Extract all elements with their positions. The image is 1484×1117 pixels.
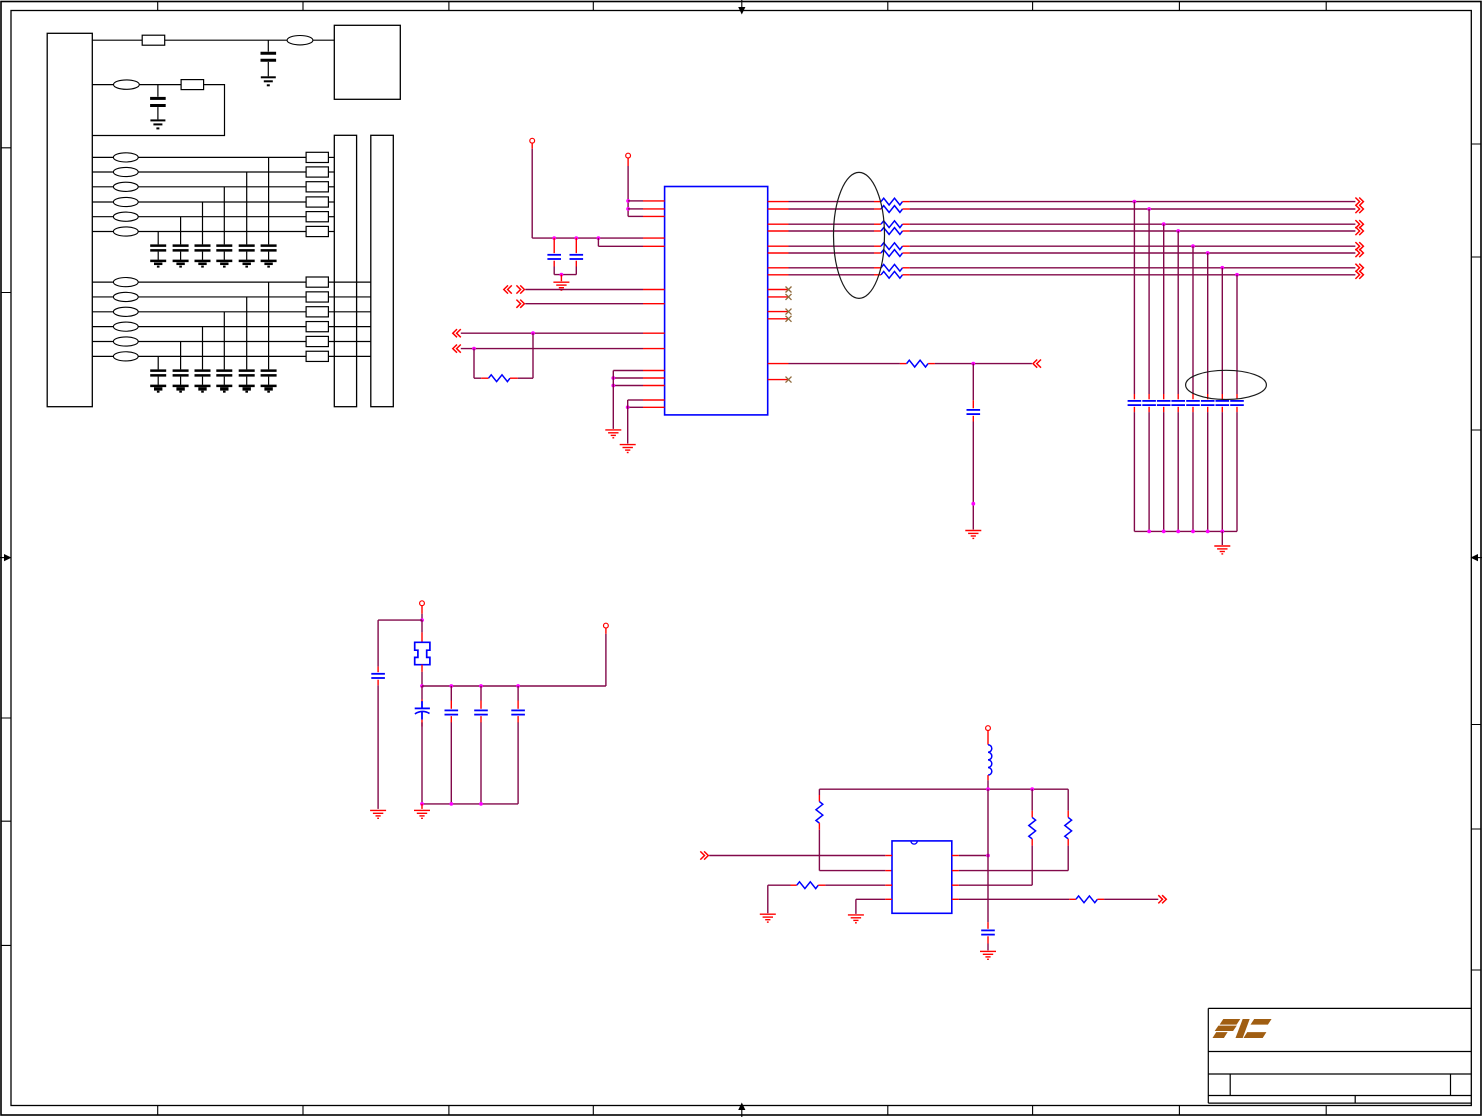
pin stub nc y311.6 bbox=[768, 311, 789, 313]
wire to U1 pin y208.9 bbox=[628, 208, 643, 210]
wire C36 top stub bbox=[1207, 394, 1209, 399]
junction dot net7 tap bbox=[1220, 266, 1224, 270]
ground C21 bbox=[261, 386, 277, 392]
junction dot gnd bus x1149.1 bbox=[1147, 530, 1151, 534]
wire C22 to ground bbox=[246, 377, 248, 385]
resistor R16 bbox=[306, 226, 328, 236]
ground C11 bbox=[261, 261, 277, 267]
wire row1 J1 to R1 bbox=[92, 39, 142, 41]
resistor R22 bbox=[306, 292, 328, 302]
capacitor C4 bbox=[967, 410, 981, 414]
resistor R55 bbox=[881, 243, 903, 250]
ground C20 bbox=[261, 77, 276, 85]
wire to T4 bbox=[605, 634, 607, 686]
junction dot xtal bus 4 bbox=[516, 684, 520, 688]
pin stub U1 RC bbox=[768, 363, 789, 365]
ground C4 bbox=[965, 531, 981, 539]
wire C4 to ground bbox=[972, 422, 974, 530]
capacitor C16 bbox=[150, 246, 166, 251]
wire R58 left stub bbox=[874, 274, 881, 276]
junction dot row4 bbox=[472, 347, 476, 351]
wire cap tap g2.5 bbox=[180, 342, 182, 370]
wire T4 red stub bbox=[605, 628, 607, 634]
wire C6 top leg bbox=[450, 686, 452, 701]
ferrite bead FB11 bbox=[113, 153, 138, 162]
wire net5 down bbox=[1192, 246, 1194, 394]
variable capacitor CV1 bbox=[415, 701, 430, 719]
resistor R11 bbox=[306, 152, 328, 162]
resistor R52 bbox=[881, 206, 903, 213]
capacitor C2 bbox=[570, 255, 584, 259]
wire port to U2 row1 bbox=[709, 855, 885, 857]
junction dot xtal bus 2 bbox=[449, 684, 453, 688]
notch U2 bbox=[911, 841, 917, 844]
port chevron left row1 bbox=[504, 285, 512, 293]
wire R52 left stub bbox=[874, 208, 881, 210]
wire C5 top leg bbox=[377, 620, 379, 667]
wire C20 to ground bbox=[267, 62, 269, 76]
junction dot xtal bus 3 bbox=[479, 684, 483, 688]
pin stub U1 y216.4 bbox=[643, 215, 665, 217]
wire FB22 to R22 bbox=[138, 296, 306, 298]
no-connect X y289.5 bbox=[786, 287, 792, 293]
junction dot row3 bbox=[531, 331, 535, 335]
wire R57 left stub bbox=[874, 267, 881, 269]
IC U1 bbox=[665, 187, 768, 415]
wire C5 bottom stub bbox=[377, 680, 379, 686]
wire C31 top stub bbox=[1133, 394, 1135, 399]
wire net3 to gnd bus bbox=[1163, 412, 1165, 531]
no-connect X y296.9 bbox=[786, 294, 792, 300]
wire gnd stub xtal bbox=[421, 804, 423, 809]
resistor R13 bbox=[306, 182, 328, 192]
wire VCC bus to U1 pin bbox=[532, 237, 643, 239]
wire C1 top stub bbox=[553, 238, 555, 253]
wire FB12 to R12 bbox=[138, 171, 306, 173]
wire C9 top stub bbox=[987, 922, 989, 929]
junction dot net2 tap bbox=[1147, 207, 1151, 211]
wire net5 to gnd bus bbox=[1192, 412, 1194, 531]
pin stub U1 y378.0 bbox=[643, 377, 665, 379]
capacitor C15 bbox=[173, 246, 189, 251]
resistor R21 bbox=[306, 277, 328, 287]
wire C21 to ground bbox=[268, 377, 270, 385]
wire collector leg bbox=[987, 789, 989, 922]
wire RC to R6 bbox=[789, 363, 900, 365]
ferrite bead FB2 bbox=[114, 80, 140, 89]
wire CV top stub bbox=[421, 700, 423, 703]
resistor R8b bbox=[1065, 817, 1072, 839]
wire port row1 to U1 bbox=[525, 289, 643, 291]
wire net7 to gnd bus bbox=[1221, 412, 1223, 531]
wire to U1 pin y216.4 bbox=[628, 215, 643, 217]
wire R9 left stub bbox=[791, 884, 797, 886]
pin stub row 348 bbox=[643, 348, 665, 350]
wire R16 to P2 bbox=[328, 231, 334, 233]
wire cap tap g1.6 bbox=[157, 232, 159, 245]
wire R7 to U2 bbox=[819, 870, 885, 872]
left border tick marks bbox=[1, 148, 11, 946]
wire R56 right stub bbox=[903, 252, 910, 254]
wire branch down bbox=[597, 238, 599, 246]
wire C11 to ground bbox=[268, 252, 270, 260]
capacitor C8 bbox=[511, 710, 525, 714]
wire R53 right stub bbox=[903, 223, 910, 225]
ferrite bead FB15 bbox=[113, 212, 138, 221]
wire J1 row g2.1 bbox=[92, 281, 113, 283]
pin stub U1 VCC1 bbox=[643, 237, 665, 239]
wire gnd row2 y400.0 bbox=[628, 399, 643, 401]
wire C34 top stub bbox=[1177, 394, 1179, 399]
FIC logo stripe F2 bbox=[1215, 1026, 1237, 1031]
bottom border tick marks bbox=[158, 1106, 1327, 1115]
wire C8 top leg bbox=[517, 686, 519, 701]
wire R22 to P2 bbox=[328, 296, 370, 298]
wire R6 left stub bbox=[900, 363, 907, 365]
pin stub U1 right 8 bbox=[768, 274, 789, 276]
wire R51 right stub bbox=[903, 201, 910, 203]
wire gnd bus stub bbox=[1221, 531, 1223, 545]
ground C15 bbox=[173, 261, 189, 267]
pin stub nc y296.9 bbox=[768, 296, 789, 298]
wire FB2 to R2 bbox=[139, 84, 181, 86]
wire net5 long bbox=[910, 245, 1356, 247]
pin stub U1 y385.5 bbox=[643, 385, 665, 387]
capacitor C31 bbox=[1128, 401, 1142, 405]
wire C7 to gnd bus bbox=[480, 722, 482, 804]
wire C8 to gnd bus bbox=[517, 722, 519, 804]
wire CV top leg bbox=[421, 686, 423, 700]
ground xtal bbox=[414, 810, 430, 818]
ground U2 row4 bbox=[848, 915, 864, 923]
bottom center arrow bbox=[738, 1103, 745, 1117]
capacitor C34 bbox=[1171, 401, 1185, 405]
wire C2 bottom stub bbox=[575, 261, 577, 267]
wire net4 to gnd bus bbox=[1177, 412, 1179, 531]
wire net1 to R51 bbox=[789, 201, 875, 203]
ground U1 b bbox=[620, 445, 636, 453]
pin stub U1 right 6 bbox=[768, 252, 789, 254]
pin stub U1 right 4 bbox=[768, 230, 789, 232]
wire xtal bus bbox=[422, 685, 606, 687]
wire Y1 top leg bbox=[421, 620, 423, 632]
wire branch to U1 bbox=[598, 245, 643, 247]
wire R4 left leg2 bbox=[474, 377, 481, 379]
wire C35 bottom stub bbox=[1192, 407, 1194, 412]
wire FB25 to R25 bbox=[138, 341, 306, 343]
wire R51 left stub bbox=[874, 201, 881, 203]
pin stub U1 y208.9 bbox=[643, 208, 665, 210]
port chevron left row3 bbox=[453, 329, 461, 337]
wire J1 row g2.6 bbox=[92, 355, 113, 357]
wire R7 top stub bbox=[818, 795, 820, 802]
capacitor C22 bbox=[239, 371, 255, 376]
wire T1 red stub bbox=[531, 143, 533, 149]
wire J1 row g1.4 bbox=[92, 201, 113, 203]
wire R4 right leg bbox=[532, 333, 534, 378]
wire net8 to gnd bus bbox=[1236, 412, 1238, 531]
pin stub nc y289.5 bbox=[768, 289, 789, 291]
ferrite bead FB22 bbox=[113, 292, 138, 301]
wire gnd leg b bbox=[627, 400, 629, 444]
wire C4 top stub bbox=[972, 400, 974, 408]
junction dot gnd bus x1207.7 bbox=[1206, 530, 1210, 534]
wire port row4 to U1 bbox=[461, 348, 643, 350]
pin stub U1 right 1 bbox=[768, 201, 789, 203]
wire C38 bottom stub bbox=[1236, 407, 1238, 412]
wire gnd leg a bbox=[612, 371, 614, 429]
wire R8b top stub bbox=[1067, 811, 1069, 818]
wire C13 to ground bbox=[223, 252, 225, 260]
junction dot gnd bus 1 bbox=[420, 802, 424, 806]
junction dot gnd bus x1222.3 bbox=[1220, 530, 1224, 534]
wire cap tap g1.2 bbox=[246, 172, 248, 244]
wire C37 top stub bbox=[1221, 394, 1223, 399]
wire C2 to gnd bus bbox=[575, 267, 577, 275]
capacitor C6 bbox=[445, 710, 459, 714]
wire CV to gnd bus bbox=[421, 722, 423, 804]
wire net1 long bbox=[910, 201, 1356, 203]
wire T3 down bbox=[421, 614, 423, 620]
terminal P6 bbox=[604, 623, 609, 628]
terminal P4 bbox=[626, 153, 631, 158]
wire gnd row y378.0 bbox=[613, 377, 643, 379]
wire C37 bottom stub bbox=[1221, 407, 1223, 412]
wire J1 row g1.3 bbox=[92, 186, 113, 188]
crystal Y1 bbox=[415, 642, 430, 664]
wire cap tap g2.2 bbox=[246, 297, 248, 369]
junction dot C1 bbox=[552, 236, 556, 240]
no-connect X y379.6 bbox=[786, 377, 792, 383]
port chevron net3 bbox=[1355, 220, 1363, 228]
wire J1 row g1.2 bbox=[92, 171, 113, 173]
junction dot gnd bus bbox=[560, 273, 564, 277]
resistor R58 bbox=[881, 271, 903, 278]
wire to R9 bbox=[768, 884, 791, 886]
wire R11 to P2 bbox=[328, 156, 334, 158]
wire net2 down bbox=[1148, 209, 1150, 394]
wire FB14 to R14 bbox=[138, 201, 306, 203]
wire J1 row g2.2 bbox=[92, 296, 113, 298]
capacitor C5 bbox=[371, 674, 385, 678]
pin stub U1 VCC2 bbox=[643, 245, 665, 247]
junction dot gnd bus x1178.2 bbox=[1176, 530, 1180, 534]
junction dot C4 leg bbox=[971, 502, 975, 506]
pin stub U2 row3 left bbox=[885, 884, 892, 886]
ground C12 bbox=[239, 261, 255, 267]
wire C7 top stub bbox=[480, 701, 482, 709]
wire R1 to FB1 bbox=[165, 39, 288, 41]
wire C9 to ground bbox=[987, 944, 989, 951]
wire R4 left leg bbox=[473, 349, 475, 379]
wire C8 top stub bbox=[517, 701, 519, 709]
wire C35 top stub bbox=[1192, 394, 1194, 399]
wire C6 top stub bbox=[450, 701, 452, 709]
wire R13 to P2 bbox=[328, 186, 334, 188]
title block frame bbox=[1208, 1008, 1471, 1103]
ground C23 bbox=[216, 386, 232, 392]
pin stub nc y379.6 bbox=[768, 379, 789, 381]
wire J1 row g2.4 bbox=[92, 326, 113, 328]
ground C13 bbox=[216, 261, 232, 267]
FIC logo stripe F3 bbox=[1213, 1032, 1228, 1038]
junction dot branch bbox=[597, 236, 601, 240]
top border tick marks bbox=[158, 2, 1327, 11]
wire R8b top leg bbox=[1067, 789, 1069, 811]
capacitor C11 bbox=[261, 246, 277, 251]
capacitor C36 bbox=[1201, 401, 1215, 405]
wire cap tap g1.1 bbox=[268, 157, 270, 244]
wire J1 row g2.3 bbox=[92, 311, 113, 313]
ferrite bead FB16 bbox=[113, 227, 138, 236]
wire C33 bottom stub bbox=[1163, 407, 1165, 412]
wire L1 to bus bbox=[987, 780, 989, 789]
wire C12 to ground bbox=[246, 252, 248, 260]
wire FB11 to R11 bbox=[138, 156, 306, 158]
junction dot RC bbox=[971, 362, 975, 366]
resistor R51 bbox=[881, 198, 903, 205]
wire R10 right stub bbox=[1097, 898, 1104, 900]
pin stub nc y318.8 bbox=[768, 318, 789, 320]
wire R10 to port bbox=[1104, 898, 1158, 900]
port chevron right row1 bbox=[516, 285, 524, 293]
wire C32 bottom stub bbox=[1148, 407, 1150, 412]
junction dot T3 bbox=[420, 618, 424, 622]
junction dot net1 tap bbox=[1133, 200, 1137, 204]
wire T1 down bbox=[531, 149, 533, 238]
wire cap tap g1.4 bbox=[202, 202, 204, 244]
resistor R14 bbox=[306, 197, 328, 207]
port chevron net8 bbox=[1355, 271, 1363, 279]
junction dot C2 bbox=[574, 236, 578, 240]
pin stub row 289 bbox=[643, 289, 665, 291]
capacitor C33 bbox=[1157, 401, 1171, 405]
wire J1 row g1.6 bbox=[92, 231, 113, 233]
wire FB23 to R23 bbox=[138, 311, 306, 313]
pin stub U1 y200.9 bbox=[643, 200, 665, 202]
wire C15 to ground bbox=[180, 252, 182, 260]
wire C36 bottom stub bbox=[1207, 407, 1209, 412]
FIC logo slash I bbox=[1236, 1019, 1250, 1038]
pin stub U2 row3 right bbox=[952, 884, 959, 886]
wire R56 left stub bbox=[874, 252, 881, 254]
wire Y1 bottom stub bbox=[421, 665, 423, 672]
resistor R9 bbox=[797, 882, 819, 889]
wire port row2 to U1 bbox=[525, 303, 643, 305]
ground C16 bbox=[150, 261, 166, 267]
title block dividers bbox=[1230, 1074, 1450, 1103]
pin stub U1 right 2 bbox=[768, 208, 789, 210]
resistor R56 bbox=[881, 250, 903, 257]
wire C23 to ground bbox=[223, 377, 225, 385]
wire T2 red stub bbox=[627, 158, 629, 166]
FIC logo stripe C2 bbox=[1244, 1032, 1267, 1038]
wire net8 down bbox=[1236, 275, 1238, 394]
wire C14 to ground bbox=[202, 252, 204, 260]
wire R15 to P2 bbox=[328, 216, 334, 218]
wire row3 to R8a leg bbox=[959, 884, 1032, 886]
right center arrow bbox=[1471, 554, 1483, 561]
wire caps ground bus bbox=[1134, 530, 1237, 532]
wire net3 down bbox=[1163, 224, 1165, 394]
wire T2 down bbox=[627, 166, 629, 216]
capacitor C23 bbox=[216, 371, 232, 376]
wire C4 bottom stub bbox=[972, 416, 974, 422]
wire net1 down bbox=[1133, 202, 1135, 394]
wire FB16 to R16 bbox=[138, 231, 306, 233]
resistor R2 bbox=[181, 80, 204, 90]
ferrite bead FB25 bbox=[113, 337, 138, 346]
pin stub U1 y400.0 bbox=[643, 399, 665, 401]
wire FB13 to R13 bbox=[138, 186, 306, 188]
wire C32 top stub bbox=[1148, 394, 1150, 399]
junction dot bus L1 bbox=[986, 787, 990, 791]
wire cap tap g2.6 bbox=[157, 356, 159, 369]
wire R4 right leg2 bbox=[518, 377, 533, 379]
wire R8a bottom leg bbox=[1031, 846, 1033, 886]
capacitor C9 bbox=[981, 930, 995, 934]
wire C7 bottom stub bbox=[480, 716, 482, 723]
wire C9 bottom stub bbox=[987, 936, 989, 943]
block U3 (top right crystal osc) bbox=[334, 25, 400, 99]
resistor R6 bbox=[907, 360, 929, 367]
junction dot pin row2 bbox=[626, 207, 630, 211]
capacitor C21 bbox=[261, 371, 277, 376]
ground C5 bbox=[370, 810, 386, 818]
wire gnd stub bbox=[560, 275, 562, 282]
port chevron RC bbox=[1033, 360, 1041, 368]
wire cap tap g2.1 bbox=[268, 282, 270, 369]
wire R25 to P2 bbox=[328, 341, 370, 343]
wire R4 right stub bbox=[510, 377, 518, 379]
capacitor C25 bbox=[173, 371, 189, 376]
ferrite bead FB24 bbox=[113, 322, 138, 331]
capacitor C37 bbox=[1216, 401, 1230, 405]
wire R4 left stub bbox=[481, 377, 488, 379]
capacitor C35 bbox=[1186, 401, 1200, 405]
wire C34 bottom stub bbox=[1177, 407, 1179, 412]
wire R54 left stub bbox=[874, 230, 881, 232]
wire net2 to R52 bbox=[789, 208, 875, 210]
resistor R25 bbox=[306, 336, 328, 346]
wire T3 red stub bbox=[421, 606, 423, 614]
wire C31 bottom stub bbox=[1133, 407, 1135, 412]
wire net7 down bbox=[1221, 268, 1223, 394]
wire FB24 to R24 bbox=[138, 326, 306, 328]
junction dot bus R8 bbox=[1030, 787, 1034, 791]
wire R8b bottom stub bbox=[1067, 839, 1069, 846]
ground C14 bbox=[195, 261, 211, 267]
capacitor C21 tap bbox=[157, 85, 159, 97]
capacitor C21 bbox=[150, 98, 166, 105]
wire gnd row2 y407.3 bbox=[628, 406, 643, 408]
junction dot gnd bus x1193.0 bbox=[1191, 530, 1195, 534]
resistor R24 bbox=[306, 322, 328, 332]
ground C1 C2 bbox=[553, 282, 569, 290]
connector P2 column 1 bbox=[334, 135, 356, 406]
wire J1 row g1.5 bbox=[92, 216, 113, 218]
wire cap tap g2.3 bbox=[223, 312, 225, 370]
wire net4 long bbox=[910, 230, 1356, 232]
wire R9 right stub bbox=[818, 884, 825, 886]
port chevron out bbox=[1158, 895, 1166, 903]
wire gnd row y370.5 bbox=[613, 370, 643, 372]
wire Y1 top stub bbox=[421, 632, 423, 641]
wire R7 top leg bbox=[818, 789, 820, 795]
wire R12 to P2 bbox=[328, 171, 334, 173]
wire net6 to gnd bus bbox=[1207, 412, 1209, 531]
pin stub U1 right 5 bbox=[768, 245, 789, 247]
